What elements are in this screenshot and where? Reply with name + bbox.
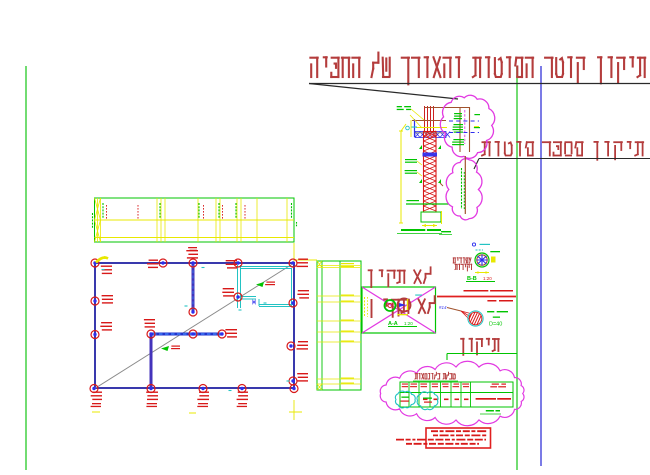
blue hatched slab band	[415, 132, 450, 138]
yellow dim segment below detail	[441, 211, 443, 224]
label cluster 11	[238, 392, 248, 393]
blue splice band on column	[423, 153, 438, 157]
label cluster 2	[149, 260, 158, 261]
column node 8	[90, 385, 98, 393]
green labels in cloud 1	[454, 113, 462, 114]
column node 3	[189, 259, 197, 267]
rebar top hooks	[425, 107, 471, 109]
red header texts	[402, 384, 506, 388]
label cluster 12	[298, 341, 308, 342]
title 1 underline	[309, 83, 650, 85]
label cluster 13	[297, 373, 308, 374]
red note text lines	[396, 431, 487, 444]
svg-text:1:20: 1:20	[483, 276, 492, 281]
label cluster 9	[146, 392, 158, 393]
column node 11	[238, 385, 246, 393]
label cluster 7	[101, 322, 112, 323]
column node 1	[91, 259, 99, 267]
pile plan symbol in rect	[385, 300, 396, 311]
yellow second dim	[410, 120, 412, 137]
right blue border line	[540, 66, 542, 466]
green rotated label in cloud2	[461, 168, 463, 209]
leader into pile circle	[447, 308, 461, 312]
label cluster 8	[93, 392, 103, 393]
pile head symbol	[475, 253, 489, 267]
magenta X cross	[362, 287, 436, 333]
cyan tick marks on plan	[102, 269, 105, 271]
column detail: rebar vertical bars	[424, 106, 426, 133]
column node 5	[289, 259, 297, 267]
beam soffit brown line	[412, 120, 446, 122]
yellow marks below plan	[92, 411, 100, 413]
yellow bar right of pile symbol	[407, 299, 409, 310]
cyan label above pile head	[472, 243, 475, 246]
crossed green rectangle	[362, 287, 436, 333]
red rotated labels in beam strip	[107, 205, 246, 219]
label cluster 5	[298, 259, 308, 260]
svg-text:D=40: D=40	[489, 322, 502, 328]
label cluster 4	[226, 260, 237, 261]
bottom extra red labels row	[92, 403, 101, 404]
cyan tiny label	[415, 295, 422, 296]
label cluster 10	[199, 392, 209, 393]
svg-text:#14: #14	[439, 305, 447, 310]
leader from title 2 to cloud 2	[474, 159, 479, 170]
leader from title 1 to cloud 1	[309, 84, 458, 100]
revision cloud 1	[440, 95, 494, 158]
B-B section label	[466, 276, 495, 282]
big revision cloud bottom	[380, 361, 524, 426]
gray diagonal brace	[94, 263, 294, 389]
title: tikun mispar motot (red hebrew heading 2)	[482, 142, 643, 160]
cyan mini cloud 1	[395, 391, 415, 408]
green left labels with yellow leaders	[405, 159, 417, 160]
table title red (tablat klonsaot)	[413, 372, 458, 381]
red text lo takin 2	[372, 296, 435, 318]
label cluster 15	[144, 319, 155, 320]
column node 13	[289, 299, 297, 307]
cyan level mark circle	[406, 126, 410, 130]
yellow bar right of pile head	[491, 257, 496, 263]
red hatched column shaft	[424, 131, 437, 212]
column node 9	[147, 385, 155, 393]
column node 4	[234, 259, 242, 267]
beam left blue post	[414, 119, 416, 137]
red P1 label under beam strip	[188, 247, 197, 248]
magenta rotated dim text in cloud1	[464, 110, 466, 144]
column node 12	[290, 385, 298, 393]
red note under line	[487, 300, 496, 302]
column node 10	[199, 385, 207, 393]
beam schedule strip outline	[95, 198, 295, 242]
splice bars in cloud 1	[459, 107, 461, 152]
interior wall vertical (top)	[192, 263, 195, 312]
green underline of tikun	[447, 353, 517, 355]
left green border line	[25, 66, 27, 470]
blue tie dashes in cloud1	[449, 120, 479, 122]
title: tikun koter hamotot (red hebrew heading 1)	[310, 53, 645, 85]
cyan mini cloud 2	[417, 392, 438, 410]
column node 2	[159, 259, 167, 267]
yellow schedule rows	[317, 261, 361, 390]
green north arrow 2 with red text	[256, 282, 264, 287]
column node 7	[91, 331, 99, 339]
yellow highlight top-left corner	[96, 258, 108, 263]
ground level green line	[406, 203, 449, 205]
footing green rect	[421, 212, 441, 222]
red note box	[426, 428, 491, 448]
yellow grid of beam strip	[95, 198, 295, 242]
red title tikun	[461, 339, 499, 355]
column schedule table	[317, 261, 361, 390]
green north arrow 1 with red text	[161, 346, 169, 351]
bar in cloud 2	[464, 156, 466, 214]
yellow dim under pile head	[475, 272, 489, 274]
column node 18	[189, 330, 197, 338]
green caption top	[441, 231, 451, 232]
column node 16	[189, 308, 197, 316]
red two-line label left (amudim vekirot)	[453, 258, 471, 271]
column node 20	[234, 293, 242, 301]
red data row	[423, 398, 511, 400]
yellow vertical dimension line	[400, 131, 402, 223]
floor plan outline	[95, 263, 294, 388]
blue door mark	[253, 299, 256, 305]
column node 17	[147, 330, 155, 338]
svg-text:1:20: 1:20	[404, 321, 413, 326]
yellow row labels	[341, 263, 354, 264]
right green border line	[516, 66, 518, 470]
red small note line above red bar	[464, 290, 489, 292]
red tick left of cloud2	[440, 183, 443, 186]
column node 15	[289, 377, 297, 385]
green note under table	[486, 410, 494, 412]
title 2 underline	[479, 158, 650, 160]
label cluster 17	[223, 288, 234, 289]
green caption under detail	[397, 229, 442, 234]
column node 19	[218, 330, 226, 338]
bottom yellow dim with arrows	[422, 225, 437, 227]
green label right of pile head	[490, 251, 500, 252]
yellow link to schedule table	[294, 259, 317, 261]
thick red separator line	[437, 296, 516, 298]
green labels right of pile	[487, 311, 494, 312]
green top-left label block	[397, 106, 402, 107]
label cluster 1	[101, 266, 112, 267]
small green tick arrows on column	[419, 145, 422, 149]
label cluster 6	[102, 295, 113, 296]
column node 14	[287, 342, 295, 350]
red fan lines	[461, 311, 471, 320]
pile circle with red hatch and cyan ring	[460, 310, 484, 327]
yellow tick in cloud1	[474, 126, 479, 128]
green rotated labels in beam strip	[93, 203, 297, 228]
revision cloud 2	[446, 159, 482, 220]
piles table	[400, 382, 513, 407]
label cluster 3	[186, 250, 198, 251]
beam yellow line	[416, 127, 447, 129]
column node 6	[91, 297, 99, 305]
label cluster 14	[298, 290, 309, 291]
cyan partition walls	[238, 265, 294, 308]
yellow drop line from beam to plan	[293, 243, 295, 263]
A-A section label	[388, 321, 417, 327]
red text lo takin 1	[369, 267, 431, 287]
interior L wall	[150, 334, 153, 388]
yellow bits near pile	[364, 297, 366, 317]
label cluster 16	[225, 329, 237, 330]
